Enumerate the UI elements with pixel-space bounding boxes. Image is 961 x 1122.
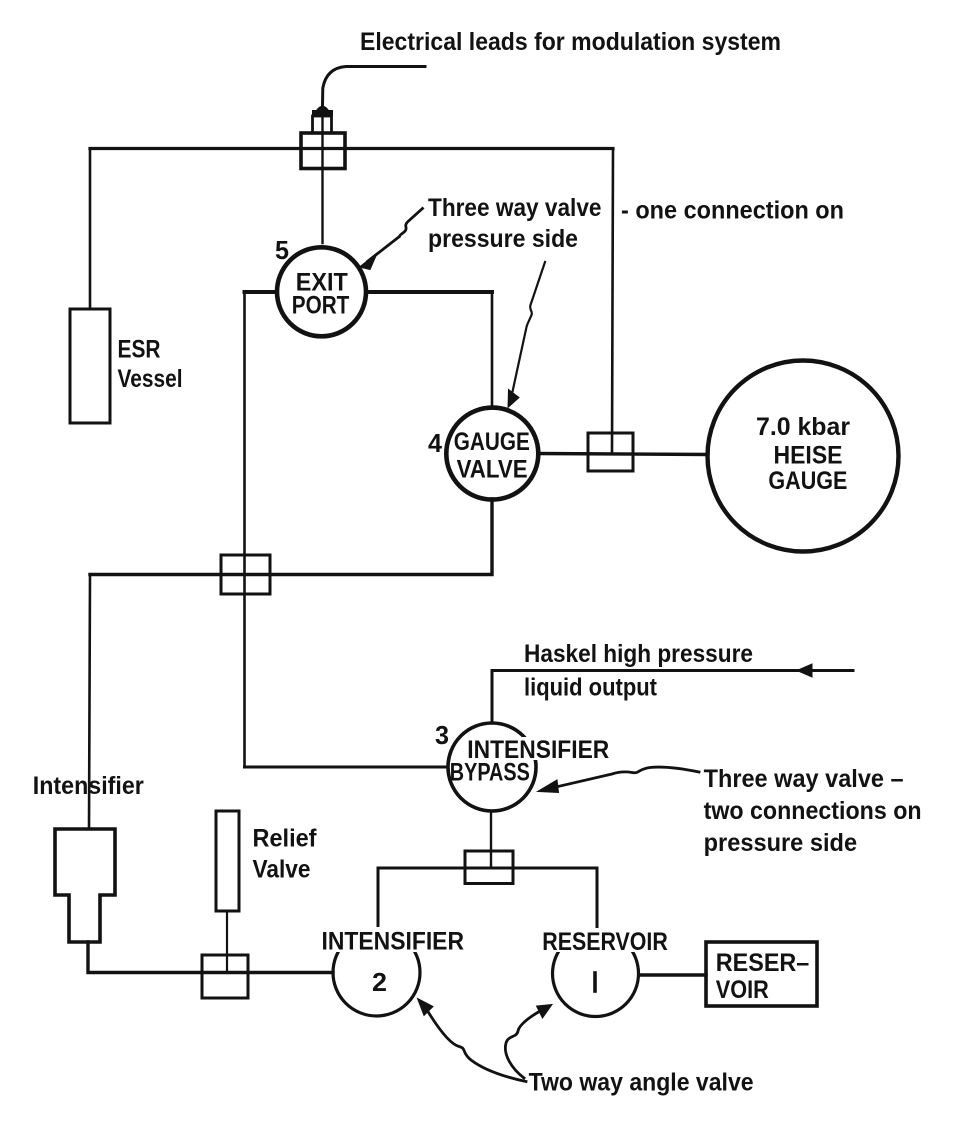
svg-text:RESERVOIR: RESERVOIR — [542, 928, 668, 956]
coupling tee below bypass — [465, 851, 513, 884]
wire: intensifier bottom out — [88, 942, 333, 973]
wire: feedthrough down to exit port — [321, 168, 323, 243]
arrow from pressure side label to gauge valve — [512, 262, 545, 394]
svg-text:- one connection on: - one connection on — [621, 197, 844, 225]
7.0 kbar HEISE GAUGE circle — [708, 361, 899, 552]
valve 4 GAUGE VALVE circle — [446, 408, 538, 500]
wire: left branch vertical down — [243, 292, 246, 767]
feedthrough flange bar — [313, 111, 333, 117]
feedthrough center conductor — [321, 116, 323, 168]
svg-text:pressure side: pressure side — [428, 225, 578, 253]
svg-text:Three way valve –: Three way valve – — [704, 765, 904, 793]
Relief valve — [216, 811, 239, 911]
feedthrough body — [301, 133, 345, 169]
svg-text:INTENSIFIER: INTENSIFIER — [322, 928, 465, 956]
valve 1 RESERVOIR circle — [553, 931, 639, 1017]
wire: left vertical down to ESR vessel — [89, 149, 92, 310]
coupling between gauge valve and Heise gauge — [588, 433, 633, 471]
svg-text:ESR: ESR — [118, 336, 161, 364]
arrow from label to exit port — [368, 209, 423, 262]
wire: left vertical down to intensifier — [89, 575, 90, 830]
label: Electrical leads for modulation system — [360, 28, 781, 56]
svg-text:pressure side: pressure side — [704, 829, 858, 857]
wire: top horizontal manifold line — [90, 147, 613, 150]
label ESR Vessel — [118, 336, 183, 394]
label: Three way valve - one connection on / pressure side — [428, 194, 844, 253]
coupling below relief valve — [202, 955, 248, 998]
wire: bypass bottom to tee coupling — [490, 811, 492, 868]
Intensifier component — [55, 829, 115, 942]
electrical feedthrough fitting on top wire — [301, 107, 345, 169]
svg-text:RESER–: RESER– — [716, 949, 810, 977]
valve 5 EXIT PORT circle — [277, 247, 366, 336]
numeral 1 inside reservoir valve — [593, 973, 597, 991]
svg-text:7.0 kbar: 7.0 kbar — [756, 413, 850, 441]
electrical lead wire (curved) — [323, 67, 426, 106]
svg-text:5: 5 — [275, 235, 289, 265]
valve 2 INTENSIFIER circle — [333, 929, 420, 1016]
svg-text:Relief: Relief — [253, 825, 318, 853]
arrow from label to bypass valve — [558, 767, 699, 786]
svg-text:HEISE: HEISE — [774, 442, 843, 470]
feedthrough cap dome — [318, 107, 328, 110]
svg-text:Intensifier: Intensifier — [33, 772, 144, 800]
wire: reservoir valve to reservoir box — [639, 973, 706, 976]
label: Two way angle valve — [529, 1069, 754, 1097]
wire: relief valve down to coupling — [226, 911, 228, 971]
Haskel output wire with left arrowhead — [492, 671, 853, 724]
svg-text:Electrical leads for modulatio: Electrical leads for modulation system — [360, 28, 781, 56]
wire: right vertical down to gauge coupling — [612, 149, 613, 453]
svg-text:Haskel high pressure: Haskel high pressure — [524, 640, 753, 668]
feedthrough neck — [313, 116, 332, 133]
svg-text:3: 3 — [435, 720, 449, 750]
wire: horizontal into intensifier bypass — [245, 766, 449, 769]
svg-text:2: 2 — [372, 967, 387, 997]
svg-text:4: 4 — [428, 428, 443, 458]
wire: gauge valve right to Heise gauge — [538, 454, 708, 455]
svg-text:VALVE: VALVE — [457, 456, 528, 484]
svg-text:PORT: PORT — [292, 292, 350, 320]
label: Three way valve - two connections on pressure side — [704, 765, 922, 857]
arrow to intensifier 2 valve — [427, 1010, 526, 1082]
svg-text:BYPASS: BYPASS — [450, 759, 530, 787]
svg-text:Vessel: Vessel — [118, 365, 183, 393]
RESERVOIR box — [706, 942, 817, 1006]
ESR vessel — [70, 309, 110, 423]
svg-text:Two way angle valve: Two way angle valve — [529, 1069, 754, 1097]
wire: tee horizontal with two drops — [378, 868, 597, 929]
arrow to reservoir 1 valve — [505, 1010, 542, 1078]
coupling on mid-left wire — [221, 555, 270, 594]
wire: exit port left stub — [245, 290, 278, 294]
valve 3 INTENSIFIER BYPASS circle — [448, 723, 536, 811]
svg-text:GAUGE: GAUGE — [454, 428, 530, 456]
wire: gauge valve bottom down and left across — [90, 499, 492, 575]
wire: exit port right stub to gauge valve — [366, 290, 492, 294]
svg-text:Three way valve: Three way valve — [428, 194, 602, 222]
svg-text:VOIR: VOIR — [716, 976, 769, 1004]
svg-text:Valve: Valve — [253, 856, 311, 884]
svg-text:liquid output: liquid output — [524, 674, 658, 702]
svg-text:two connections on: two connections on — [704, 797, 922, 825]
svg-text:GAUGE: GAUGE — [768, 467, 847, 495]
